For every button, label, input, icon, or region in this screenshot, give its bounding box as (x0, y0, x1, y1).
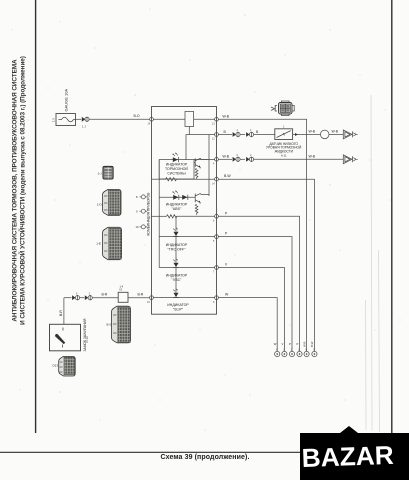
svg-text:W: W (274, 342, 277, 346)
connector block CB4 (112, 306, 131, 343)
transistor Q2 (195, 193, 209, 203)
right edge terminal E6 (215, 235, 219, 239)
terminal T2 (282, 351, 287, 356)
svg-text:IG: IG (120, 288, 123, 292)
junction relay box (118, 292, 128, 302)
inner left vertical wire (158, 160, 160, 268)
right edge terminal E8 (215, 296, 219, 300)
terminal T4 (297, 351, 302, 356)
svg-text:B-W: B-W (310, 341, 314, 347)
svg-text:6: 6 (305, 349, 307, 352)
svg-text:13: 13 (212, 123, 215, 126)
svg-text:8: 8 (213, 301, 215, 304)
svg-text:W-B: W-B (302, 341, 306, 347)
svg-text:1: 1 (298, 349, 300, 352)
bus1 wire (152, 178, 166, 180)
wire E5 to T4 (218, 216, 299, 351)
transistor Q1 (194, 158, 209, 168)
diode D3 (182, 195, 188, 200)
svg-text:"VSC": "VSC" (172, 278, 183, 282)
right edge terminal E4 (215, 177, 219, 181)
LED chain vertical VSC (175, 237, 177, 263)
bus2 wire (152, 215, 167, 217)
svg-text:2: 2 (291, 349, 293, 352)
svg-text:B-R: B-R (138, 293, 144, 297)
node L1 terminal (150, 117, 154, 121)
resistor R4 in bus2 (167, 215, 177, 218)
svg-text:B 5: B 5 (107, 323, 112, 327)
bus4 wire VSC (159, 267, 214, 269)
wire lamp bottom to row2 (186, 127, 189, 135)
svg-text:5: 5 (313, 349, 315, 352)
terminal pin numbers (76, 123, 315, 352)
brake fluid level sensor box (275, 129, 293, 140)
connector join on fuse wire (82, 118, 86, 120)
right edge terminal E7 (215, 266, 219, 270)
svg-text:GAUGE 10A: GAUGE 10A (64, 88, 69, 111)
connector join J3 (233, 157, 240, 162)
svg-text:4: 4 (213, 163, 215, 166)
LED D5 VSC (173, 259, 178, 268)
svg-text:W-B: W-B (309, 130, 316, 134)
floating terminal node F1 (140, 195, 148, 199)
svg-text:КОМБИНАЦИЯ ПРИБОРОВ: КОМБИНАЦИЯ ПРИБОРОВ (146, 192, 150, 236)
svg-text:14: 14 (148, 123, 151, 126)
LED D6 SLIP (173, 289, 178, 298)
svg-text:ИНДИКАТОР: ИНДИКАТОР (167, 303, 189, 307)
svg-text:1-E: 1-E (96, 242, 101, 246)
ignition switch box (50, 324, 81, 351)
connector block CB1 (103, 166, 113, 179)
svg-text:"ABS": "ABS" (172, 207, 182, 211)
svg-text:P: P (225, 211, 228, 215)
indicator box 1 (159, 160, 194, 179)
svg-text:ИНДИКАТОР: ИНДИКАТОР (166, 203, 188, 207)
wire E2 row (218, 134, 232, 136)
svg-text:ИНДИКАТОР: ИНДИКАТОР (166, 163, 188, 167)
fuse GAUGE 10A (56, 114, 76, 126)
ground arrows row E2 (343, 130, 357, 139)
svg-text:1-J: 1-J (98, 172, 103, 176)
wire ind1 top to E3 (194, 159, 215, 161)
right edge terminal E5 (215, 214, 219, 218)
ground point circle (320, 130, 329, 139)
ignition lever (55, 334, 65, 344)
svg-text:B-R: B-R (102, 293, 108, 297)
wire ignition up (63, 298, 65, 325)
svg-text:8: 8 (136, 195, 138, 199)
LED chain vertical SLIP (175, 268, 177, 293)
svg-text:D13: D13 (53, 364, 59, 368)
svg-text:2: 2 (89, 292, 91, 295)
svg-text:B: B (256, 130, 259, 134)
svg-text:W-B: W-B (332, 130, 339, 134)
svg-text:P: P (225, 232, 228, 236)
right edge terminal E1 (215, 117, 219, 121)
svg-text:P: P (297, 342, 299, 346)
arrow mark at connector C10 (271, 107, 275, 110)
svg-text:1-D: 1-D (97, 203, 103, 207)
LED D4 TRC (173, 228, 178, 237)
floating terminal node F2 (140, 209, 148, 213)
resistor R3 emitter2 (195, 204, 198, 215)
resistor R1 emitter (195, 168, 198, 179)
svg-text:10: 10 (136, 225, 139, 229)
terminal T3 (289, 351, 294, 356)
svg-text:16: 16 (147, 301, 150, 304)
svg-text:6: 6 (237, 154, 239, 157)
wire E3 row (218, 158, 232, 160)
svg-text:V: V (282, 342, 284, 346)
svg-text:W-B: W-B (223, 154, 230, 158)
svg-text:ИНДИКАТОР: ИНДИКАТОР (166, 243, 188, 247)
svg-text:12: 12 (212, 138, 215, 141)
svg-text:СИСТЕМЫ: СИСТЕМЫ (167, 171, 185, 175)
LED chain vertical TRC (175, 216, 177, 231)
svg-text:B-W: B-W (224, 174, 231, 178)
indicator 2 ABS anode wire (159, 196, 195, 198)
LED D2 (172, 190, 179, 200)
wire collector rail (208, 135, 210, 197)
LED D1 (172, 152, 178, 162)
resistor R2 in bus1 (166, 178, 177, 181)
BAZAR watermark box (300, 426, 409, 480)
svg-text:BAZAR: BAZAR (301, 440, 394, 473)
svg-text:D 13: D 13 (85, 336, 89, 342)
wire ignition row (64, 297, 72, 299)
svg-text:ИНДИКАТОР: ИНДИКАТОР (166, 274, 188, 278)
svg-text:A 11: A 11 (281, 153, 287, 157)
side margin title text (11, 50, 28, 330)
svg-text:W: W (225, 293, 229, 297)
svg-text:W-B: W-B (309, 154, 316, 158)
svg-text:6: 6 (213, 220, 215, 223)
connector block CB3 (103, 227, 122, 259)
svg-text:1 5: 1 5 (52, 118, 56, 122)
connector join J5 (72, 295, 80, 300)
right edge terminal E3 (215, 157, 219, 161)
svg-text:P: P (289, 342, 291, 346)
svg-text:"SLIP": "SLIP" (173, 307, 184, 311)
svg-text:7: 7 (213, 271, 215, 274)
ground arrows row E3 (343, 155, 357, 164)
svg-text:14: 14 (212, 182, 215, 185)
svg-text:9: 9 (136, 210, 138, 214)
wire fuse to meter (76, 118, 82, 120)
node L2 terminal B-R entry (150, 296, 154, 300)
connector join J4 (246, 157, 253, 162)
bus3 wire TRC (159, 236, 214, 238)
svg-text:4: 4 (237, 129, 239, 132)
svg-text:5: 5 (213, 240, 215, 243)
svg-text:B: B (224, 130, 227, 134)
svg-text:2: 2 (283, 126, 285, 129)
wire E4 to T6 (218, 179, 314, 351)
page frame right border (391, 0, 393, 452)
connector block CB2 (103, 189, 122, 215)
connector join J1 (233, 132, 240, 137)
connector join J6 (85, 295, 92, 300)
floating terminal node F3 (140, 225, 148, 229)
bottom rule (0, 451, 409, 453)
terminal T5 (304, 351, 309, 356)
svg-text:W-B: W-B (223, 115, 230, 119)
caption (110, 454, 300, 461)
wire E6 to T3 (218, 237, 292, 352)
connector block CB5 (59, 356, 75, 376)
svg-text:B-O: B-O (134, 114, 140, 118)
ignition contacts (62, 328, 65, 348)
right edge terminal E2 (215, 133, 219, 137)
connector icon C10 top right (275, 101, 294, 116)
svg-text:3: 3 (283, 349, 285, 352)
wire feed drop to indicator 1 (185, 135, 187, 160)
wire circle to arrows (329, 133, 344, 135)
wire E8 to T1 (218, 298, 277, 352)
terminal T1 (275, 351, 280, 356)
svg-text:V: V (225, 263, 228, 267)
svg-text:B-R: B-R (59, 310, 63, 316)
svg-text:2: 2 (250, 129, 252, 132)
svg-text:2: 2 (250, 154, 252, 157)
svg-text:4: 4 (276, 349, 278, 352)
svg-text:"TRC OFF": "TRC OFF" (167, 247, 186, 251)
wire sensor to ground circle (293, 134, 321, 136)
combination meter box (152, 107, 217, 315)
svg-text:ЗАМОК ЗАЖИГАНИЯ: ЗАМОК ЗАЖИГАНИЯ (83, 318, 87, 351)
scan artifact streaks (decorative) (371, 95, 372, 430)
lamp rectangle (185, 112, 194, 127)
page frame left border (35, 0, 37, 433)
wire E1 to T5 (218, 119, 306, 351)
connector join J2 (246, 132, 253, 137)
wire E7 to T2 (218, 268, 284, 352)
svg-text:ТОРМОЗНОЙ: ТОРМОЗНОЙ (165, 167, 188, 171)
terminal T6 (312, 351, 317, 356)
bus5 wire SLIP (153, 297, 214, 299)
wire row1 inside box (153, 118, 185, 120)
svg-text:1 J: 1 J (82, 125, 86, 129)
svg-text:6: 6 (76, 292, 78, 295)
